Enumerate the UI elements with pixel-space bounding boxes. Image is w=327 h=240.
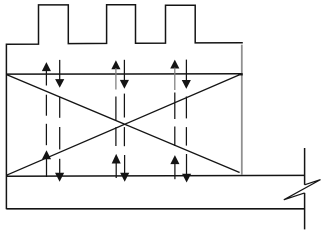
right support vertical (upper segment) [304,148,306,185]
right edge of slab (gray) [241,45,243,175]
castellated slab outline (left edge, shoulder and three teeth) [6,5,242,210]
beam top line [6,174,304,177]
falling diagonal of cross brace [7,75,240,173]
up-flow arrow line 3 (right column) [171,61,179,180]
rising diagonal of cross brace [7,74,242,175]
up-flow arrow line 1 (left column) [43,63,51,177]
break (cut) symbol on right support [284,180,321,200]
junction blob at top-right corner of brace panel [239,73,243,76]
right support vertical (lower segment) [304,193,306,230]
beam bottom line [6,208,304,210]
inner top chord line [6,73,241,75]
down-flow arrow line 2 (middle column) [121,60,129,181]
up-flow arrow line 2 (middle column) [112,61,120,178]
down-flow arrow line 1 (left column) [56,60,64,181]
down-flow arrow line 3 (right column) [183,60,191,182]
